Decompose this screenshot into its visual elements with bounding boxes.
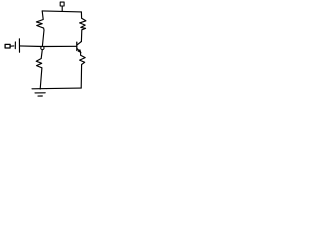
ground bottom bar [38,95,42,97]
wire top rail [42,11,81,12]
power terminal VCC (square pad) [60,2,64,6]
ground middle bar [35,92,45,94]
resistor R2 (lower left, base node to ground) [36,50,42,90]
node base junction [41,46,44,49]
wire bottom rail [46,87,81,90]
wire terminal stub [10,45,14,47]
battery V1 short plate [14,42,16,49]
wire battery to base node [20,45,43,48]
resistor R4 (emitter resistor) [80,53,86,89]
wire VCC stem [61,6,63,11]
transistor Q1 emitter lead [77,49,81,53]
wire base node to transistor base [42,45,76,47]
resistor R3 (collector load) [80,12,86,42]
transistor Q1 emitter arrow [78,50,81,53]
terminal (input square pad) [5,44,10,48]
transistor Q1 base bar [76,42,78,50]
ground top bar [32,88,46,90]
battery V1 long plate [18,39,20,53]
resistor R1 (upper left, between top rail and base node) [36,11,44,46]
transistor Q1 collector lead [77,42,81,45]
